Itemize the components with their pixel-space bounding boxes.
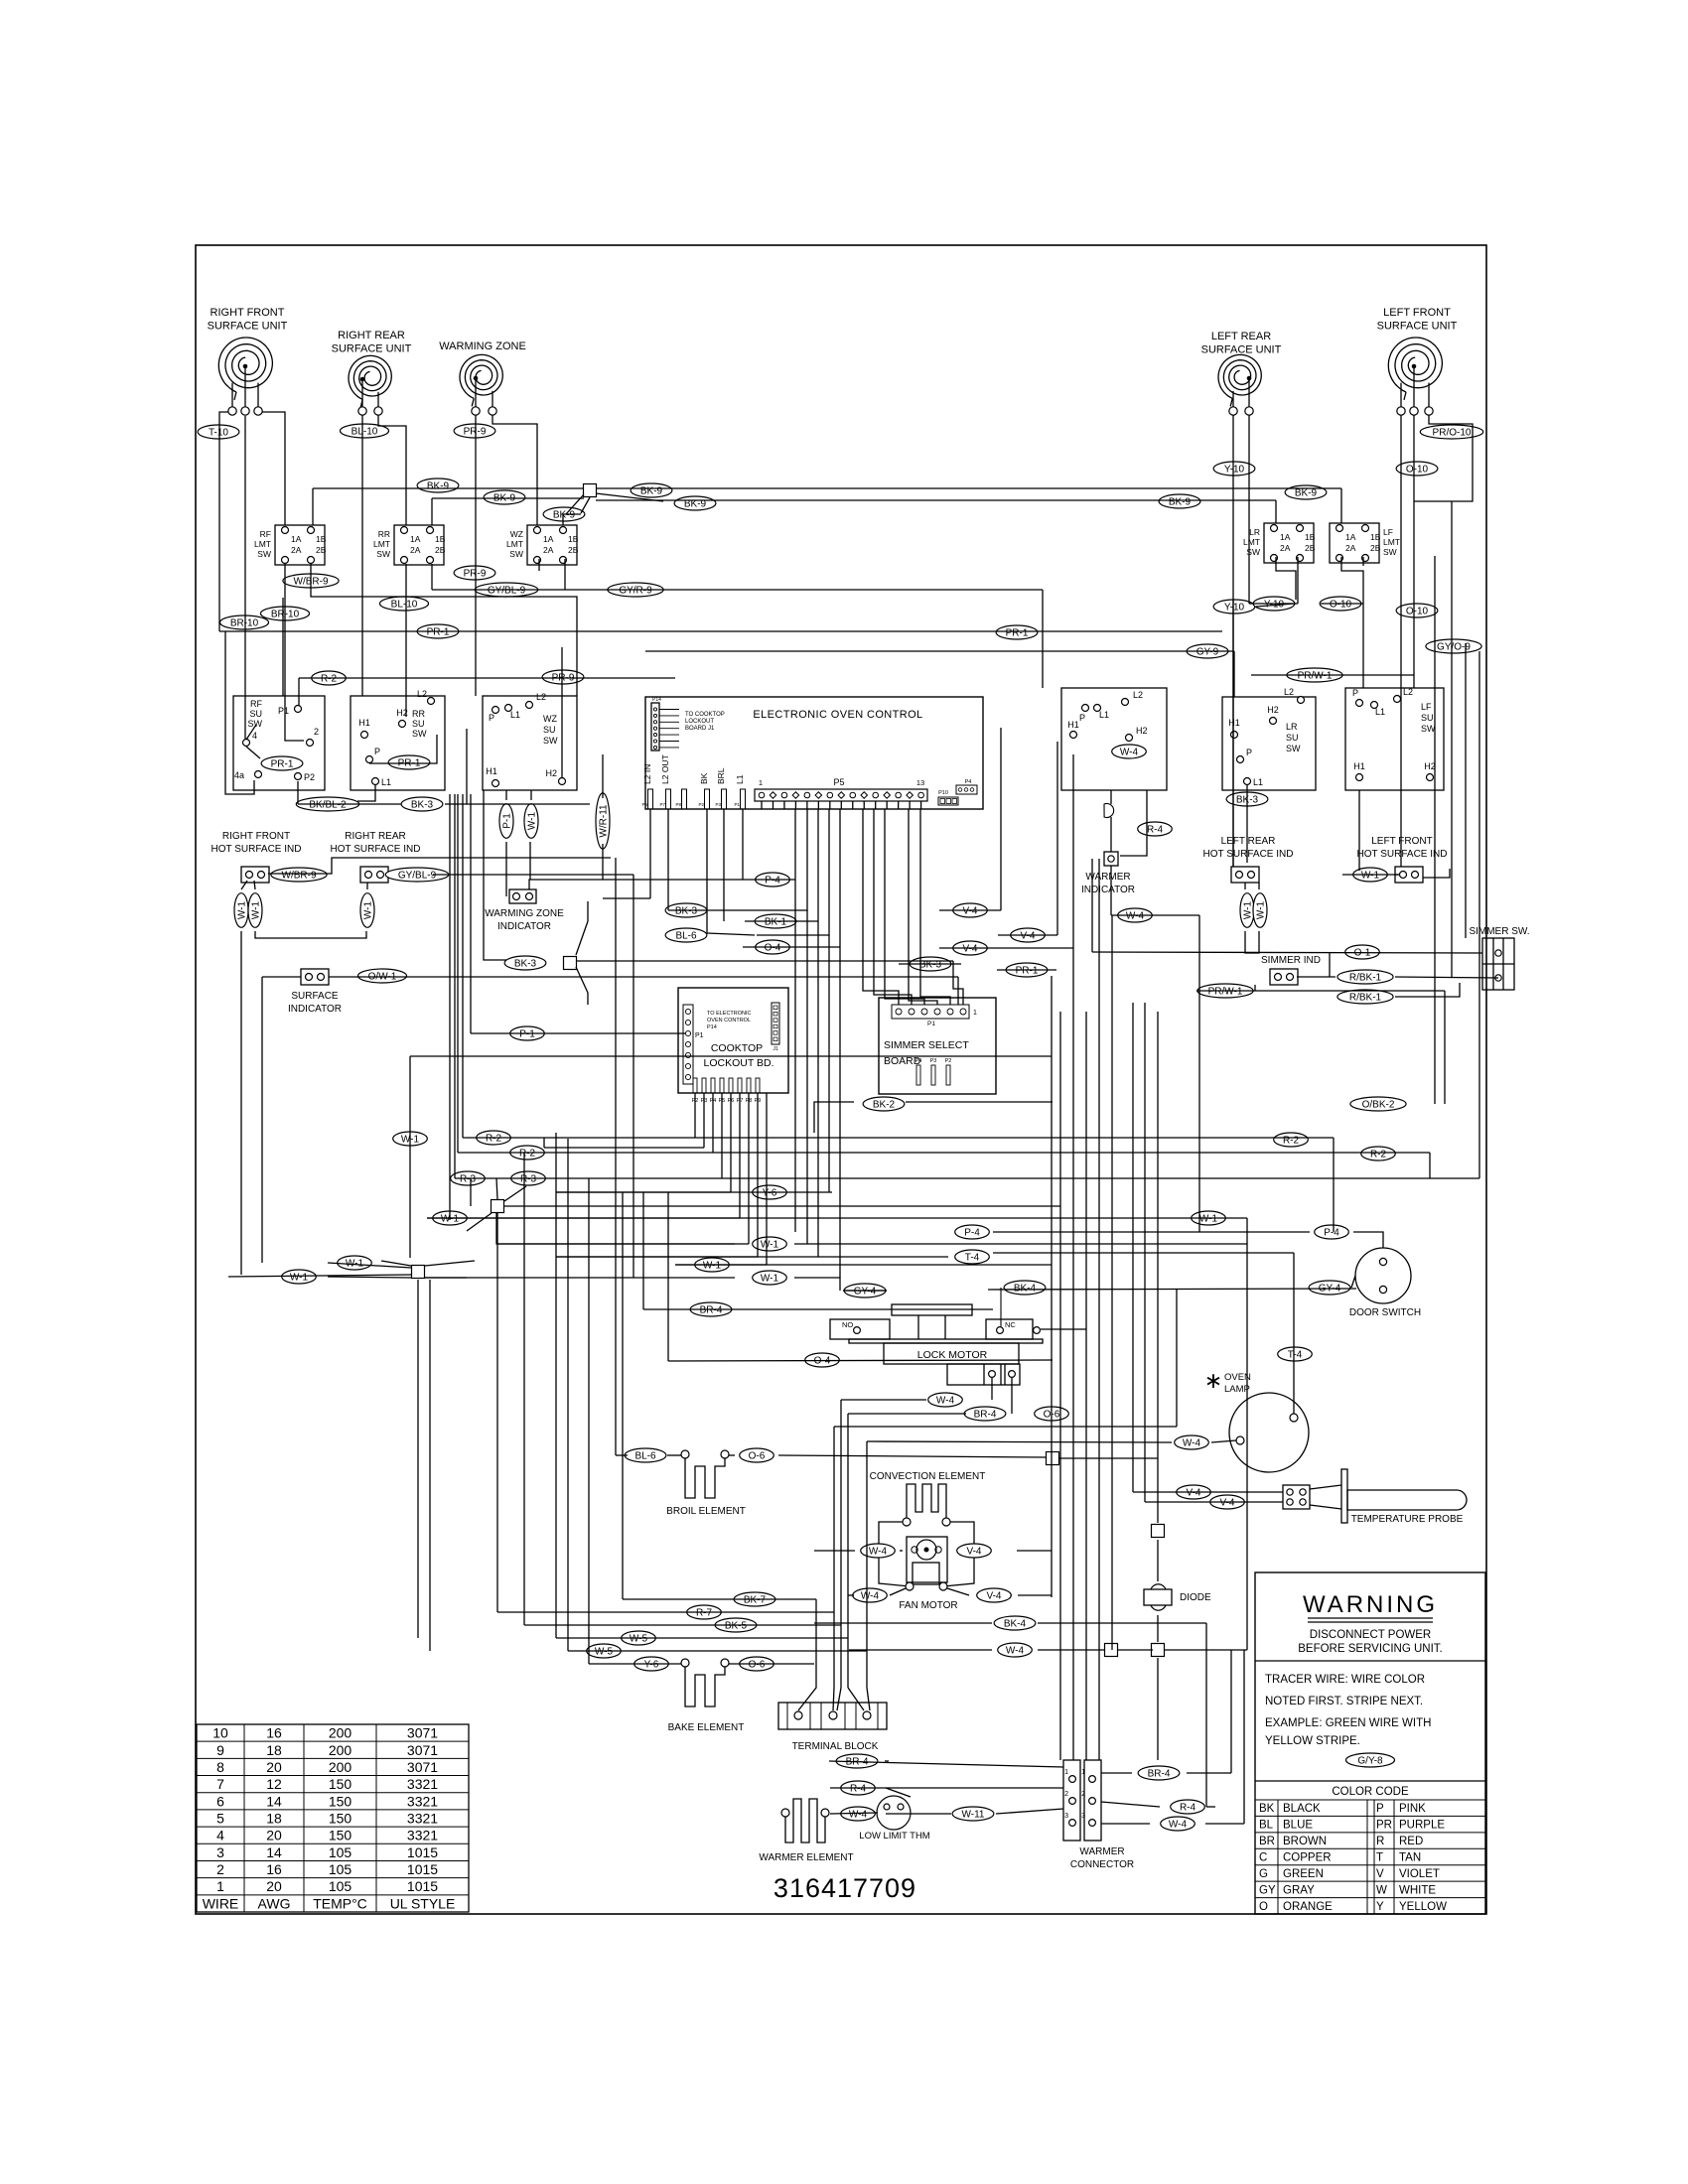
svg-text:SW: SW	[543, 736, 558, 746]
svg-text:2: 2	[314, 727, 319, 737]
svg-text:W-1: W-1	[290, 1272, 309, 1283]
svg-text:WARNING: WARNING	[1303, 1591, 1438, 1618]
svg-text:R-2: R-2	[321, 673, 338, 684]
svg-text:SIMMER IND: SIMMER IND	[1261, 955, 1321, 966]
svg-text:BLACK: BLACK	[1283, 1803, 1321, 1815]
svg-text:R-3: R-3	[520, 1173, 537, 1184]
svg-text:2: 2	[216, 1861, 224, 1877]
svg-text:R-2: R-2	[486, 1133, 502, 1144]
svg-text:2A: 2A	[1280, 543, 1291, 553]
svg-text:P1: P1	[927, 1021, 935, 1027]
svg-text:LEFT FRONT: LEFT FRONT	[1383, 307, 1451, 319]
svg-text:GY/R-9: GY/R-9	[619, 585, 652, 596]
svg-text:P-1: P-1	[519, 1028, 535, 1039]
svg-text:LMT: LMT	[506, 539, 523, 549]
svg-text:P7: P7	[659, 802, 665, 807]
svg-text:105: 105	[329, 1878, 352, 1894]
svg-text:GY-9: GY-9	[1196, 646, 1219, 657]
svg-text:P4: P4	[965, 779, 972, 785]
svg-text:SU: SU	[543, 725, 556, 735]
svg-text:P14: P14	[707, 1024, 717, 1030]
svg-text:BK-5: BK-5	[725, 1620, 748, 1631]
svg-text:BK-9: BK-9	[553, 509, 576, 520]
svg-text:3321: 3321	[407, 1828, 438, 1843]
svg-text:PINK: PINK	[1399, 1803, 1426, 1815]
svg-text:WHITE: WHITE	[1399, 1884, 1436, 1896]
svg-text:WIRE: WIRE	[203, 1895, 239, 1911]
svg-text:COPPER: COPPER	[1283, 1852, 1332, 1864]
svg-text:16: 16	[266, 1725, 282, 1741]
svg-text:W-1: W-1	[250, 900, 261, 919]
svg-text:BL: BL	[1259, 1820, 1274, 1832]
svg-text:P2: P2	[945, 1058, 952, 1064]
svg-text:P: P	[489, 713, 494, 723]
svg-text:R-7: R-7	[696, 1607, 713, 1618]
svg-text:P6: P6	[641, 802, 647, 807]
svg-text:WZ: WZ	[510, 529, 523, 539]
svg-text:R-2: R-2	[1283, 1135, 1300, 1146]
svg-text:P2: P2	[698, 802, 704, 807]
svg-text:O-4: O-4	[765, 942, 781, 953]
svg-text:W-11: W-11	[962, 1809, 985, 1820]
svg-text:PR-9: PR-9	[464, 426, 487, 437]
svg-text:DOOR SWITCH: DOOR SWITCH	[1349, 1307, 1421, 1318]
svg-text:BAKE ELEMENT: BAKE ELEMENT	[668, 1722, 745, 1733]
svg-text:V-4: V-4	[1020, 930, 1035, 941]
svg-text:BK-4: BK-4	[1014, 1283, 1037, 1294]
svg-text:1B: 1B	[568, 534, 579, 544]
svg-text:1015: 1015	[407, 1878, 438, 1894]
svg-text:BK: BK	[1259, 1803, 1275, 1815]
svg-text:SW: SW	[1421, 724, 1436, 734]
svg-text:EXAMPLE: GREEN WIRE WITH: EXAMPLE: GREEN WIRE WITH	[1265, 1717, 1431, 1729]
svg-text:DISCONNECT POWER: DISCONNECT POWER	[1310, 1629, 1431, 1641]
svg-text:HOT SURFACE IND: HOT SURFACE IND	[1203, 849, 1294, 860]
svg-text:L2: L2	[536, 692, 546, 702]
svg-text:OVEN CONTROL: OVEN CONTROL	[707, 1018, 751, 1024]
svg-text:105: 105	[329, 1844, 352, 1860]
svg-text:W-4: W-4	[1120, 747, 1139, 757]
svg-text:NOTED FIRST. STRIPE NEXT.: NOTED FIRST. STRIPE NEXT.	[1265, 1696, 1423, 1707]
svg-text:L1: L1	[1375, 707, 1385, 717]
svg-text:WZ: WZ	[543, 714, 557, 724]
svg-text:W-4: W-4	[1126, 910, 1145, 921]
svg-text:3071: 3071	[407, 1742, 438, 1758]
svg-text:1: 1	[1081, 1769, 1085, 1776]
svg-text:V-4: V-4	[1186, 1487, 1200, 1498]
svg-text:CONNECTOR: CONNECTOR	[1070, 1859, 1134, 1870]
svg-text:16: 16	[266, 1861, 282, 1877]
svg-text:R-4: R-4	[1180, 1802, 1196, 1813]
svg-text:NO: NO	[842, 1320, 853, 1329]
svg-text:Y-10: Y-10	[1224, 464, 1245, 475]
svg-text:P5: P5	[833, 777, 844, 787]
svg-text:BR: BR	[1259, 1836, 1275, 1847]
svg-text:BLUE: BLUE	[1283, 1820, 1313, 1832]
svg-text:O-6: O-6	[749, 1450, 766, 1461]
svg-text:BR-4: BR-4	[1148, 1768, 1171, 1779]
svg-text:BRL: BRL	[716, 767, 726, 784]
svg-text:W-1: W-1	[703, 1260, 722, 1271]
svg-text:13: 13	[916, 778, 924, 787]
svg-text:1A: 1A	[543, 534, 554, 544]
svg-text:W-4: W-4	[1183, 1437, 1201, 1448]
svg-text:GY-4: GY-4	[854, 1286, 877, 1297]
svg-text:W-1: W-1	[236, 900, 247, 919]
svg-text:SW: SW	[376, 549, 390, 559]
svg-text:H1: H1	[358, 718, 370, 728]
svg-text:RED: RED	[1399, 1836, 1423, 1847]
svg-text:SURFACE UNIT: SURFACE UNIT	[1201, 344, 1282, 356]
svg-text:W-5: W-5	[630, 1633, 648, 1644]
svg-text:BK-9: BK-9	[640, 485, 663, 496]
svg-text:BK/BL-2: BK/BL-2	[309, 799, 347, 810]
svg-text:W-4: W-4	[861, 1590, 880, 1601]
svg-text:H1: H1	[486, 766, 497, 776]
svg-text:BEFORE SERVICING UNIT.: BEFORE SERVICING UNIT.	[1298, 1643, 1442, 1655]
svg-text:18: 18	[266, 1742, 282, 1758]
svg-text:SURFACE UNIT: SURFACE UNIT	[208, 321, 288, 333]
svg-text:ORANGE: ORANGE	[1283, 1901, 1333, 1913]
svg-text:SIMMER SW.: SIMMER SW.	[1469, 926, 1529, 937]
svg-text:SU: SU	[412, 719, 425, 729]
svg-text:2B: 2B	[1370, 543, 1381, 553]
svg-text:SU: SU	[249, 709, 262, 719]
svg-text:AWG: AWG	[258, 1895, 291, 1911]
svg-text:L1: L1	[381, 777, 391, 787]
svg-text:G/Y-8: G/Y-8	[1357, 1755, 1383, 1766]
svg-text:W-5: W-5	[595, 1646, 614, 1657]
svg-text:DIODE: DIODE	[1180, 1592, 1211, 1603]
svg-text:2B: 2B	[568, 545, 579, 555]
svg-text:P1: P1	[734, 802, 740, 807]
svg-text:TEMPERATURE PROBE: TEMPERATURE PROBE	[1351, 1514, 1464, 1525]
svg-text:NC: NC	[1005, 1320, 1016, 1329]
svg-text:LOCK MOTOR: LOCK MOTOR	[917, 1349, 988, 1361]
svg-text:SURFACE: SURFACE	[291, 991, 339, 1002]
svg-text:BROWN: BROWN	[1283, 1836, 1327, 1847]
svg-text:9: 9	[216, 1742, 224, 1758]
svg-text:L1: L1	[1099, 710, 1109, 720]
svg-text:GREEN: GREEN	[1283, 1868, 1324, 1880]
svg-text:4: 4	[252, 731, 257, 741]
svg-text:2: 2	[1081, 1791, 1085, 1798]
svg-text:SW: SW	[1383, 547, 1397, 557]
svg-text:LF: LF	[1421, 702, 1432, 712]
svg-text:INDICATOR: INDICATOR	[288, 1004, 342, 1015]
svg-text:W-1: W-1	[761, 1273, 779, 1284]
svg-text:BK: BK	[699, 772, 709, 784]
svg-text:O-10: O-10	[1406, 606, 1429, 616]
svg-text:PR-1: PR-1	[427, 626, 450, 637]
svg-text:3: 3	[1064, 1813, 1068, 1820]
svg-text:1B: 1B	[316, 534, 327, 544]
svg-text:BL-6: BL-6	[634, 1450, 656, 1461]
svg-text:TEMP°C: TEMP°C	[313, 1895, 367, 1911]
svg-text:P4: P4	[915, 1058, 922, 1064]
svg-text:HOT SURFACE IND: HOT SURFACE IND	[1357, 849, 1448, 860]
svg-text:T-10: T-10	[209, 427, 228, 438]
svg-text:W-1: W-1	[761, 1239, 779, 1250]
svg-text:O-10: O-10	[1406, 464, 1429, 475]
svg-text:2B: 2B	[435, 545, 446, 555]
svg-text:8: 8	[216, 1759, 224, 1775]
svg-text:P: P	[1376, 1803, 1384, 1815]
svg-text:2A: 2A	[543, 545, 554, 555]
svg-text:R/BK-1: R/BK-1	[1349, 992, 1382, 1003]
svg-text:L2: L2	[1133, 690, 1143, 700]
svg-text:BK-9: BK-9	[1169, 496, 1192, 507]
svg-text:1A: 1A	[410, 534, 421, 544]
svg-text:PR-9: PR-9	[464, 568, 487, 579]
svg-text:BK-1: BK-1	[765, 916, 787, 927]
svg-text:R/BK-1: R/BK-1	[1349, 972, 1382, 983]
svg-text:BOARD J1: BOARD J1	[685, 726, 715, 732]
svg-text:SW: SW	[257, 549, 271, 559]
svg-text:V-4: V-4	[1219, 1497, 1234, 1508]
svg-text:RR: RR	[378, 529, 390, 539]
svg-text:2A: 2A	[291, 545, 302, 555]
svg-text:1015: 1015	[407, 1844, 438, 1860]
svg-text:Y-10: Y-10	[1224, 602, 1245, 613]
svg-text:H2: H2	[1424, 761, 1436, 771]
svg-text:RIGHT REAR: RIGHT REAR	[338, 330, 405, 341]
svg-text:W-4: W-4	[936, 1395, 955, 1406]
svg-text:SURFACE UNIT: SURFACE UNIT	[332, 343, 412, 355]
svg-text:SU: SU	[1286, 733, 1299, 743]
svg-text:2B: 2B	[316, 545, 327, 555]
svg-text:W-1: W-1	[526, 811, 537, 830]
svg-text:C: C	[1259, 1852, 1267, 1864]
svg-text:L2 OUT: L2 OUT	[660, 754, 670, 784]
svg-text:3071: 3071	[407, 1759, 438, 1775]
svg-text:P8: P8	[675, 802, 681, 807]
svg-text:L1: L1	[735, 774, 745, 784]
svg-text:V-4: V-4	[986, 1590, 1001, 1601]
svg-text:W-4: W-4	[1169, 1819, 1188, 1830]
svg-text:TO ELECTRONIC: TO ELECTRONIC	[707, 1011, 752, 1017]
svg-text:P-4: P-4	[1324, 1227, 1339, 1238]
svg-text:J1: J1	[773, 1046, 778, 1052]
svg-text:200: 200	[329, 1742, 352, 1758]
svg-text:RIGHT FRONT: RIGHT FRONT	[222, 831, 290, 842]
svg-text:14: 14	[266, 1793, 282, 1809]
svg-text:1: 1	[759, 778, 763, 787]
svg-text:1: 1	[1064, 1769, 1068, 1776]
svg-text:316417709: 316417709	[774, 1873, 916, 1903]
svg-text:P: P	[374, 747, 380, 756]
svg-text:SW: SW	[509, 549, 523, 559]
svg-text:W-4: W-4	[869, 1546, 888, 1557]
svg-text:H2: H2	[545, 768, 557, 778]
svg-text:W: W	[1376, 1884, 1387, 1896]
svg-text:2A: 2A	[410, 545, 421, 555]
svg-text:PR/O-10: PR/O-10	[1433, 427, 1472, 438]
svg-text:4a: 4a	[234, 770, 244, 780]
svg-text:LEFT REAR: LEFT REAR	[1211, 331, 1271, 342]
svg-text:R: R	[1376, 1836, 1384, 1847]
svg-text:LAMP: LAMP	[1224, 1384, 1250, 1395]
svg-text:LR: LR	[1249, 527, 1260, 537]
svg-text:PURPLE: PURPLE	[1399, 1820, 1445, 1832]
svg-text:VIOLET: VIOLET	[1399, 1868, 1440, 1880]
svg-text:T-4: T-4	[965, 1252, 980, 1263]
svg-text:L1: L1	[1253, 777, 1263, 787]
svg-text:BROIL ELEMENT: BROIL ELEMENT	[666, 1506, 746, 1517]
svg-text:O-10: O-10	[1330, 599, 1352, 610]
svg-text:4: 4	[216, 1828, 224, 1843]
svg-text:H1: H1	[1067, 720, 1079, 730]
svg-text:V-4: V-4	[962, 905, 977, 916]
svg-text:P1: P1	[278, 706, 289, 716]
svg-text:TERMINAL BLOCK: TERMINAL BLOCK	[792, 1741, 879, 1752]
svg-text:GY/BL-9: GY/BL-9	[488, 585, 526, 596]
svg-text:O/BK-2: O/BK-2	[1362, 1099, 1395, 1110]
svg-text:14: 14	[266, 1844, 282, 1860]
svg-text:H2: H2	[1267, 705, 1279, 715]
svg-text:RR: RR	[412, 709, 425, 719]
svg-text:R-3: R-3	[460, 1173, 477, 1184]
svg-text:18: 18	[266, 1811, 282, 1827]
svg-text:P-4: P-4	[765, 875, 780, 886]
svg-text:L2: L2	[417, 689, 427, 699]
svg-text:W-4: W-4	[849, 1809, 868, 1820]
svg-text:10: 10	[212, 1725, 228, 1741]
svg-text:6: 6	[216, 1793, 224, 1809]
svg-text:INDICATOR: INDICATOR	[1081, 885, 1135, 895]
svg-text:L2: L2	[1284, 687, 1294, 697]
svg-text:R-2: R-2	[1370, 1149, 1387, 1160]
svg-text:P-1: P-1	[501, 813, 512, 829]
svg-text:5: 5	[216, 1811, 224, 1827]
svg-text:WARMER ELEMENT: WARMER ELEMENT	[759, 1852, 853, 1863]
svg-text:L2: L2	[1403, 687, 1413, 697]
svg-text:WARMING ZONE: WARMING ZONE	[439, 341, 526, 352]
svg-text:LEFT FRONT: LEFT FRONT	[1371, 836, 1432, 847]
svg-text:3: 3	[216, 1844, 224, 1860]
svg-text:3321: 3321	[407, 1793, 438, 1809]
svg-text:TRACER WIRE: WIRE COLOR: TRACER WIRE: WIRE COLOR	[1265, 1674, 1425, 1686]
svg-text:L1: L1	[510, 710, 520, 720]
svg-text:FAN MOTOR: FAN MOTOR	[899, 1600, 957, 1611]
svg-text:Y-6: Y-6	[763, 1187, 777, 1198]
svg-text:P2: P2	[304, 772, 315, 782]
svg-text:LMT: LMT	[1383, 537, 1400, 547]
svg-text:12: 12	[266, 1776, 282, 1792]
svg-text:BR-4: BR-4	[974, 1409, 997, 1420]
svg-text:G: G	[1259, 1868, 1268, 1880]
svg-text:BK-3: BK-3	[411, 799, 434, 810]
svg-text:105: 105	[329, 1861, 352, 1877]
svg-text:WARMING ZONE: WARMING ZONE	[485, 908, 564, 919]
svg-text:ELECTRONIC OVEN CONTROL: ELECTRONIC OVEN CONTROL	[753, 709, 922, 721]
svg-text:P1: P1	[695, 1032, 704, 1039]
svg-text:1: 1	[216, 1878, 224, 1894]
svg-text:SW: SW	[1286, 744, 1301, 753]
svg-text:LOW LIMIT THM: LOW LIMIT THM	[859, 1831, 930, 1842]
svg-text:LEFT REAR: LEFT REAR	[1221, 836, 1276, 847]
svg-text:20: 20	[266, 1759, 282, 1775]
svg-text:1B: 1B	[1305, 532, 1316, 542]
svg-text:W/BR-9: W/BR-9	[282, 870, 317, 881]
svg-text:COOKTOP: COOKTOP	[711, 1042, 763, 1054]
svg-text:3: 3	[1081, 1813, 1085, 1820]
svg-text:SW: SW	[412, 729, 427, 739]
svg-text:LMT: LMT	[1243, 537, 1260, 547]
svg-text:BK-3: BK-3	[514, 958, 537, 969]
svg-text:SU: SU	[1421, 713, 1434, 723]
svg-text:PR-1: PR-1	[1016, 965, 1039, 976]
svg-text:P3: P3	[715, 802, 721, 807]
svg-text:YELLOW STRIPE.: YELLOW STRIPE.	[1265, 1735, 1360, 1747]
svg-text:R-4: R-4	[850, 1783, 867, 1794]
svg-text:GY/BL-9: GY/BL-9	[398, 870, 437, 881]
svg-text:V-4: V-4	[962, 943, 977, 954]
svg-text:RF: RF	[250, 699, 262, 709]
svg-text:PR: PR	[1376, 1820, 1392, 1832]
svg-text:SIMMER SELECT: SIMMER SELECT	[884, 1039, 969, 1051]
svg-text:1B: 1B	[435, 534, 446, 544]
svg-text:P: P	[1079, 713, 1085, 723]
svg-text:1A: 1A	[291, 534, 302, 544]
svg-text:∗: ∗	[1204, 1368, 1222, 1393]
svg-text:2: 2	[1064, 1791, 1068, 1798]
svg-text:W-4: W-4	[1006, 1645, 1025, 1656]
svg-text:150: 150	[329, 1793, 352, 1809]
svg-text:O: O	[1259, 1901, 1268, 1913]
svg-text:P: P	[1352, 688, 1358, 698]
svg-text:200: 200	[329, 1759, 352, 1775]
svg-text:BL-6: BL-6	[675, 930, 697, 941]
svg-text:150: 150	[329, 1811, 352, 1827]
svg-text:H2: H2	[1136, 726, 1148, 736]
svg-text:YELLOW: YELLOW	[1399, 1901, 1447, 1913]
svg-text:PR-1: PR-1	[271, 758, 294, 769]
svg-text:RIGHT REAR: RIGHT REAR	[345, 831, 406, 842]
svg-text:2B: 2B	[1305, 543, 1316, 553]
svg-text:20: 20	[266, 1828, 282, 1843]
svg-text:R-2: R-2	[519, 1148, 536, 1159]
svg-text:7: 7	[216, 1776, 224, 1792]
svg-text:GRAY: GRAY	[1283, 1884, 1315, 1896]
svg-text:W-1: W-1	[1361, 870, 1380, 881]
svg-text:INDICATOR: INDICATOR	[497, 921, 551, 932]
svg-text:2A: 2A	[1345, 543, 1356, 553]
svg-text:BR-4: BR-4	[700, 1304, 723, 1315]
svg-text:HOT SURFACE IND: HOT SURFACE IND	[211, 844, 302, 855]
svg-text:150: 150	[329, 1776, 352, 1792]
svg-text:BK-3: BK-3	[675, 905, 698, 916]
svg-text:BK-7: BK-7	[744, 1594, 767, 1605]
svg-text:T-4: T-4	[1288, 1349, 1303, 1360]
svg-text:BL-10: BL-10	[391, 599, 418, 610]
svg-text:TAN: TAN	[1399, 1852, 1421, 1864]
svg-text:PR-1: PR-1	[1006, 627, 1029, 638]
svg-text:1A: 1A	[1345, 532, 1356, 542]
svg-text:1015: 1015	[407, 1861, 438, 1877]
svg-text:W-1: W-1	[1242, 900, 1253, 919]
svg-text:200: 200	[329, 1725, 352, 1741]
svg-text:RF: RF	[260, 529, 271, 539]
svg-text:3321: 3321	[407, 1776, 438, 1792]
svg-text:W-1: W-1	[1199, 1213, 1218, 1224]
svg-text:BK-4: BK-4	[1004, 1618, 1027, 1629]
svg-text:BK-2: BK-2	[873, 1099, 896, 1110]
svg-text:3321: 3321	[407, 1811, 438, 1827]
svg-text:BR-10: BR-10	[230, 617, 259, 628]
svg-text:RIGHT FRONT: RIGHT FRONT	[211, 307, 285, 319]
svg-text:WARMER: WARMER	[1079, 1846, 1124, 1857]
